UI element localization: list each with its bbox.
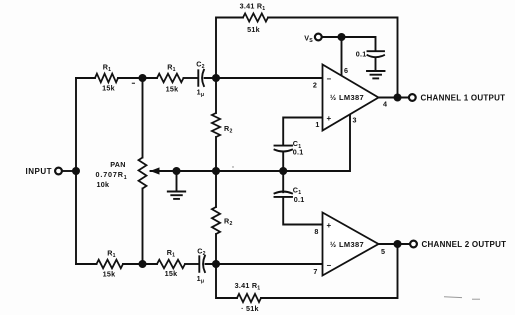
wire ground stub — [176, 171, 178, 191]
wire U2 output — [379, 243, 410, 245]
resistor R2 lower — [212, 207, 220, 234]
wire bus lower segment — [215, 234, 217, 264]
capacitor C1 upper (0.1) — [275, 145, 293, 147]
wire C2 to pin2 — [205, 77, 323, 79]
svg-text:15k: 15k — [103, 270, 116, 279]
wire C2 to pin7 — [206, 263, 323, 265]
wire C1 upper lead — [283, 118, 322, 146]
node B (C2/feedback junction bottom) — [212, 260, 220, 268]
resistor R1 top-right (15k) — [157, 74, 184, 83]
svg-text:0.1: 0.1 — [293, 147, 304, 156]
wire C1 lower lead — [283, 197, 322, 225]
node Vs junction — [338, 33, 346, 41]
wire C1 lower from node — [282, 171, 284, 192]
wire pin6 stub — [341, 37, 343, 76]
wire bottom feedback left — [216, 264, 237, 298]
wire pot bottom lead — [142, 189, 144, 265]
svg-text:5: 5 — [381, 247, 385, 256]
svg-text:6: 6 — [344, 66, 348, 75]
terminal CHANNEL 1 OUTPUT — [409, 94, 416, 101]
wire Vs rail — [322, 37, 376, 50]
svg-text:15k: 15k — [165, 269, 178, 278]
svg-text:51k: 51k — [247, 25, 260, 34]
svg-text:½ LM387: ½ LM387 — [330, 93, 364, 102]
svg-text:15k: 15k — [166, 84, 179, 93]
wire U1 output — [379, 97, 409, 99]
svg-text:INPUT: INPUT — [26, 167, 53, 176]
wire bus upper segment — [215, 78, 217, 113]
wire center rail — [159, 115, 351, 172]
terminal INPUT — [55, 168, 62, 175]
noise dot mid-left — [232, 166, 233, 167]
wire bottom rail to C2 — [185, 263, 198, 265]
noise dash left of pot top junction — [132, 82, 135, 84]
wire top rail left — [76, 77, 95, 79]
node center bus junction — [212, 167, 220, 175]
svg-text:0.1: 0.1 — [294, 195, 305, 204]
op-amp U2 half LM387 — [323, 213, 379, 276]
wire input stub — [62, 170, 76, 172]
ground (wiper) — [168, 192, 185, 199]
wire bottom feedback right — [261, 244, 398, 298]
op-amp U1 half LM387 — [323, 65, 379, 131]
wire left vertical rail — [75, 78, 77, 264]
resistor R1 bottom-right (15k) — [157, 260, 185, 269]
wire top rail mid — [118, 77, 157, 79]
wire bottom rail mid — [123, 263, 157, 265]
wire top rail to C2 — [184, 77, 198, 79]
capacitor C2 top (1u) — [197, 70, 199, 86]
svg-text:8: 8 — [314, 227, 318, 236]
wire cap to ground — [375, 59, 377, 71]
wiper arrow — [151, 170, 177, 172]
noise dash near bottom-right rail — [444, 296, 462, 299]
node U1 output junction — [394, 94, 402, 102]
wire C1 upper to node — [282, 151, 284, 171]
resistor 3.41R1 (bottom, 51k) — [237, 294, 261, 302]
node center C1 junction — [279, 167, 287, 175]
svg-text:10k: 10k — [97, 180, 110, 189]
resistor 3.41R1 (top, 51k) — [243, 13, 268, 21]
svg-text:−: − — [327, 74, 332, 83]
resistor R2 upper — [212, 113, 220, 137]
resistor R1 bottom-left (15k) — [97, 260, 124, 269]
capacitor C2 bottom (1u) — [198, 256, 200, 272]
wire bus middle segment — [215, 137, 217, 207]
wire pot top lead — [142, 78, 144, 158]
svg-text:1: 1 — [315, 120, 319, 129]
svg-text:+: + — [327, 114, 332, 123]
svg-text:CHANNEL 1 OUTPUT: CHANNEL 1 OUTPUT — [421, 93, 506, 102]
svg-text:· 51k: · 51k — [241, 304, 259, 313]
wire bottom rail left — [76, 263, 97, 265]
svg-text:PAN: PAN — [110, 160, 125, 169]
svg-text:0.1: 0.1 — [356, 50, 367, 59]
svg-text:3: 3 — [353, 116, 357, 125]
node top pot junction — [139, 74, 147, 82]
capacitor C1 lower (0.1) — [275, 192, 293, 194]
svg-text:4: 4 — [383, 100, 387, 109]
svg-text:+: + — [327, 221, 332, 230]
node bottom pot junction — [139, 260, 147, 268]
svg-text:−: − — [327, 261, 332, 270]
svg-text:2: 2 — [313, 81, 317, 90]
capacitor 0.1 Vs bypass — [368, 50, 385, 52]
svg-text:7: 7 — [313, 267, 317, 276]
ground (Vs bypass) — [367, 71, 385, 78]
resistor R1 top-left (15k) — [95, 74, 118, 83]
wire top feedback right down to output — [268, 18, 398, 98]
node input junction — [72, 167, 80, 175]
potentiometer PAN 0.707R1 10k — [139, 158, 147, 189]
node A (C2/feedback junction top) — [212, 74, 220, 82]
svg-text:CHANNEL 2 OUTPUT: CHANNEL 2 OUTPUT — [422, 240, 507, 249]
terminal Vs — [315, 34, 322, 41]
wire top feedback from node A up and right — [216, 18, 243, 79]
node wiper ground junction — [173, 167, 181, 175]
node U2 output junction — [394, 240, 402, 248]
noise dot right of bottom corner — [472, 298, 480, 300]
terminal CHANNEL 2 OUTPUT — [410, 241, 417, 248]
svg-text:½ LM387: ½ LM387 — [330, 240, 364, 249]
svg-text:15k: 15k — [102, 84, 115, 93]
